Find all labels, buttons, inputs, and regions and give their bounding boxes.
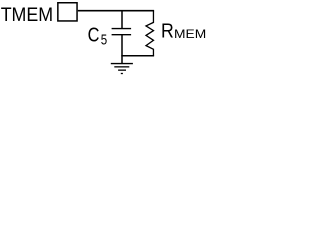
svg-text:TMEM: TMEM xyxy=(1,4,53,26)
svg-text:R: R xyxy=(161,19,174,42)
svg-text:5: 5 xyxy=(101,31,107,48)
wire top net xyxy=(78,10,154,12)
resistor R_MEM xyxy=(146,11,154,56)
pin TMEM box xyxy=(58,3,77,21)
svg-text:C: C xyxy=(88,23,100,46)
capacitor C5 xyxy=(112,29,132,35)
label C5 xyxy=(88,23,108,48)
label R_MEM xyxy=(161,19,206,42)
svg-text:MEM: MEM xyxy=(174,28,206,41)
wire bottom net xyxy=(121,55,154,57)
wire capacitor bottom lead to ground xyxy=(121,35,123,64)
ground xyxy=(111,64,133,74)
wire capacitor top lead xyxy=(121,11,123,28)
